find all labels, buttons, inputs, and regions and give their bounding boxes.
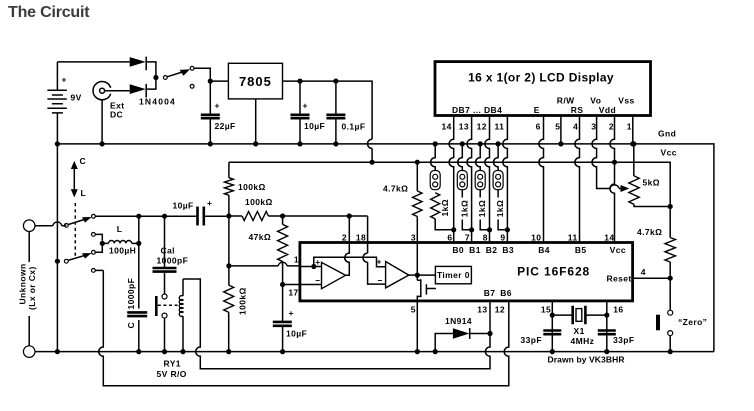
- svg-text:13: 13: [477, 305, 487, 315]
- capacitor C8 33pF right: [598, 331, 616, 335]
- svg-text:Gnd: Gnd: [658, 129, 676, 139]
- wire L/C branch vertical: [138, 216, 140, 351]
- svg-text:1N914: 1N914: [445, 316, 472, 326]
- wire LCD pin3 Vo to pot wiper: [592, 116, 626, 189]
- battery return vertical: [56, 144, 58, 352]
- node: +5 feed joins Vcc rail: [370, 160, 375, 165]
- wire PIC pin16 down: [606, 301, 608, 352]
- svg-text:100kΩ: 100kΩ: [238, 287, 248, 315]
- svg-text:5: 5: [555, 122, 560, 132]
- node: C2 bottom: [297, 141, 302, 146]
- node: C1 on gnd rail: [208, 141, 213, 146]
- hop: terminal wire over battery return: [53, 222, 62, 226]
- node: ExtDC on gnd rail: [100, 141, 105, 146]
- potentiometer VR1 5k: [629, 176, 639, 204]
- node: R9 on Vcc rail: [415, 160, 420, 165]
- capacitor C6 10uF coupling: [196, 207, 229, 226]
- node: C3 top: [333, 79, 338, 84]
- svg-text:1N4004: 1N4004: [139, 97, 176, 107]
- node: C8 on gnd rail: [604, 349, 609, 354]
- resistor RA 1k (zigzag): [431, 193, 440, 219]
- capacitor C9 10uF to gnd: [273, 285, 292, 352]
- wire SW1b upper throw to L junction: [95, 246, 102, 252]
- capacitor C7 33pF left: [543, 331, 561, 335]
- node: Vdd on Vcc rail: [612, 160, 617, 165]
- svg-text:2: 2: [342, 232, 347, 242]
- svg-text:11: 11: [495, 122, 505, 132]
- svg-text:+: +: [62, 75, 67, 85]
- node: C9 on bottom rail: [280, 349, 285, 354]
- wire LCD pin6 E to PIC pin10: [539, 116, 544, 243]
- node: R6 on bottom rail: [226, 349, 231, 354]
- svg-text:5V R/O: 5V R/O: [157, 369, 187, 379]
- node: R1 top junction: [226, 213, 231, 218]
- svg-text:10µF: 10µF: [286, 328, 307, 338]
- svg-text:22µF: 22µF: [215, 121, 236, 131]
- svg-text:RS: RS: [571, 105, 584, 115]
- reset wire from PIC pin4: [633, 277, 671, 279]
- capacitor C2 10uF: [291, 81, 310, 144]
- jumper JB: [457, 171, 467, 190]
- svg-text:12: 12: [495, 305, 505, 315]
- resistor R1 100k vertical: [224, 162, 233, 216]
- svg-text:L: L: [81, 188, 87, 198]
- terminal bottom (unknown): [23, 346, 35, 358]
- node: Vss on gnd rail: [630, 141, 635, 146]
- svg-text:11: 11: [568, 232, 578, 242]
- svg-text:Vcc: Vcc: [661, 148, 677, 158]
- svg-text:B5: B5: [575, 245, 587, 255]
- regulator U2 7805 box: [228, 63, 282, 99]
- Vcc rail: [229, 162, 670, 206]
- node: pin15 crystal junction: [550, 313, 555, 318]
- svg-text:7805: 7805: [239, 74, 272, 89]
- svg-text:4.7kΩ: 4.7kΩ: [637, 227, 662, 237]
- jumper JC: [475, 171, 485, 190]
- wire pin17 line: [283, 284, 300, 286]
- 7805 ground pin wire: [255, 99, 257, 144]
- wire LCD pin5 R/W to gnd: [560, 116, 562, 144]
- node: stub B on gnd rail: [460, 141, 465, 146]
- jumper column B stub from gnd: [458, 144, 463, 171]
- svg-text:33pF: 33pF: [521, 335, 542, 345]
- svg-text:B6: B6: [500, 288, 512, 298]
- node: inductor left junction: [100, 241, 105, 246]
- capacitor C5 Cal 1000pF: [153, 268, 177, 272]
- page title: [8, 4, 89, 22]
- wire osc line from SW1a throw: [95, 215, 196, 217]
- resistor RB 1k (text body): [461, 190, 463, 198]
- diode D2 1N4004 (bottom): [130, 78, 156, 98]
- svg-text:1000pF: 1000pF: [157, 255, 189, 265]
- resistor RD 1k (text body): [497, 190, 499, 198]
- relay contact RY1a: [156, 294, 178, 318]
- node: pin17 junction: [280, 282, 285, 287]
- wire terminal top to switch 1 common: [29, 226, 64, 346]
- resistor R6 100k lower: [224, 266, 234, 352]
- svg-text:17: 17: [288, 288, 298, 298]
- relay coil RY1: [179, 279, 183, 352]
- node: battery return at switch 2: [55, 259, 60, 264]
- resistor R2 100k horizontal: [229, 212, 283, 221]
- node: pot top on gnd rail: [631, 141, 636, 146]
- svg-text:1kΩ: 1kΩ: [477, 200, 487, 217]
- svg-text:Vdd: Vdd: [599, 105, 616, 115]
- node: inductor right junction: [136, 241, 141, 246]
- switch SW1a (C/L select upper): [64, 214, 95, 236]
- wire RD to data line: [498, 220, 507, 230]
- wire PIC pin13 B7 to relay coil: [183, 279, 490, 369]
- pot bottom wire to Vcc branch: [634, 204, 670, 206]
- node: C3 bottom: [333, 141, 338, 146]
- crystal X1: [552, 306, 607, 325]
- svg-text:B2: B2: [486, 245, 498, 255]
- jumper column D stub from gnd: [494, 144, 499, 171]
- svg-text:6: 6: [447, 232, 452, 242]
- svg-text:+: +: [303, 101, 308, 111]
- svg-text:4.7kΩ: 4.7kΩ: [383, 184, 408, 194]
- hop: pin1 wire over R3: [278, 262, 287, 266]
- +5V rail from 7805: [283, 81, 373, 162]
- LCD module box: [435, 62, 651, 116]
- wire pin1 into + input: [300, 266, 322, 268]
- node: 7805 gnd on rail: [253, 141, 258, 146]
- svg-text:Cal: Cal: [161, 245, 175, 255]
- svg-text:Reset: Reset: [607, 273, 632, 283]
- svg-text:1kΩ: 1kΩ: [495, 200, 505, 217]
- node: R2/R3 junction: [280, 213, 285, 218]
- svg-text:L: L: [117, 224, 123, 234]
- resistor R3 47k: [278, 216, 288, 285]
- node: pin16 crystal junction: [604, 313, 609, 318]
- svg-text:16 x 1(or 2) LCD Display: 16 x 1(or 2) LCD Display: [468, 71, 614, 85]
- svg-text:DB7 ... DB4: DB7 ... DB4: [452, 105, 502, 115]
- wire LCD pin13 to PIC pin7: [467, 116, 472, 243]
- node: stub A on gnd rail: [433, 141, 438, 146]
- Ext DC jack J1: [93, 82, 130, 144]
- node: + input junction: [311, 264, 316, 269]
- svg-text:9V: 9V: [71, 93, 82, 103]
- svg-text:2: 2: [609, 122, 614, 132]
- svg-text:Drawn by VK3BHR: Drawn by VK3BHR: [548, 355, 625, 365]
- gnd top rail: [57, 144, 714, 352]
- node: reset junction: [668, 276, 673, 281]
- wire SW1a common to terminal: [64, 224, 66, 226]
- svg-text:47kΩ: 47kΩ: [249, 232, 272, 242]
- node: D3 anode on gnd rail: [433, 349, 438, 354]
- svg-text:5kΩ: 5kΩ: [643, 178, 660, 188]
- node: battery return on bottom rail: [55, 349, 60, 354]
- gnd bottom rail: [35, 351, 714, 353]
- svg-text:“Zero”: “Zero”: [678, 317, 707, 327]
- svg-text:3: 3: [591, 122, 596, 132]
- svg-text:0.1µF: 0.1µF: [342, 122, 366, 132]
- svg-text:+: +: [207, 198, 212, 208]
- hop: Vo wiper wire over Vdd line: [610, 185, 619, 189]
- wire RA to data line: [435, 219, 454, 230]
- svg-text:15: 15: [541, 305, 551, 315]
- svg-text:B4: B4: [538, 245, 550, 255]
- transistor Q1 mosfet: [417, 279, 436, 301]
- svg-text:3: 3: [411, 232, 416, 242]
- switch SW1b (C/L select lower): [64, 250, 95, 272]
- wire RC to data line: [480, 220, 489, 230]
- svg-text:Vcc: Vcc: [610, 245, 626, 255]
- diode D1 1N4004 (top): [130, 57, 156, 78]
- wire SW1a lower throw to L junction: [95, 234, 102, 240]
- node: C7 on gnd rail: [550, 349, 555, 354]
- svg-text:4: 4: [573, 122, 578, 132]
- C/L selector arrow: [71, 161, 78, 198]
- capacitor C3 0.1uF: [326, 81, 345, 144]
- diode D3 1N914: [435, 328, 490, 352]
- wire LCD pin11 to PIC pin9: [503, 116, 508, 243]
- node: R6 top junction: [226, 263, 231, 268]
- hop: pin18 wire over + line: [363, 253, 368, 262]
- Timer 0 box: [435, 266, 471, 283]
- wire RB to data line: [462, 220, 471, 230]
- svg-text:+: +: [215, 101, 220, 111]
- wire LCD pin1 Vss to gnd: [632, 116, 634, 144]
- op-amp U1a triangle: [322, 262, 346, 288]
- battery BT1 9V: [47, 90, 66, 144]
- node: relay contact on rail: [162, 349, 167, 354]
- svg-text:1kΩ: 1kΩ: [459, 200, 469, 217]
- svg-text:B0: B0: [452, 245, 464, 255]
- pot wiper arrowhead: [621, 185, 630, 192]
- node: RD joins DB4 line: [505, 227, 510, 232]
- svg-text:Vo: Vo: [590, 95, 601, 105]
- svg-text:9: 9: [500, 232, 505, 242]
- wire pin1 line with hop over R3: [229, 265, 300, 267]
- wire Zero button to gnd rail: [669, 336, 671, 352]
- node: C2 top: [297, 79, 302, 84]
- wire PIC pin15 down: [551, 301, 553, 352]
- svg-text:X1: X1: [574, 326, 585, 336]
- resistor R9 4.7k pull-up: [413, 162, 422, 242]
- svg-text:13: 13: [459, 122, 469, 132]
- svg-text:6: 6: [536, 122, 541, 132]
- svg-text:33pF: 33pF: [613, 335, 634, 345]
- wire PIC pin5 to gnd: [416, 301, 418, 352]
- wire U1b output to pin3 line: [409, 243, 418, 281]
- wire reset to Zero button: [669, 278, 671, 310]
- svg-text:Timer 0: Timer 0: [437, 270, 470, 280]
- node: stub C on gnd rail: [478, 141, 483, 146]
- svg-text:14: 14: [442, 122, 452, 132]
- switch SW power: [163, 66, 210, 88]
- svg-text:1kΩ: 1kΩ: [440, 199, 450, 216]
- jumper column A stub from gnd: [431, 144, 436, 171]
- push button SW Zero: [656, 310, 673, 335]
- svg-text:1: 1: [294, 255, 299, 265]
- jumper column C stub from gnd: [476, 144, 481, 171]
- wire pin17 into - input: [300, 284, 322, 286]
- svg-text:100µH: 100µH: [109, 246, 136, 256]
- svg-text:10µF: 10µF: [304, 121, 325, 131]
- svg-text:100kΩ: 100kΩ: [238, 182, 266, 192]
- svg-text:5: 5: [411, 305, 416, 315]
- wire LCD pin2 Vdd to Vcc rail and PIC pin14: [610, 116, 615, 243]
- node: battery on gnd rail: [55, 141, 60, 146]
- svg-text:RY1: RY1: [164, 359, 181, 369]
- terminal top (unknown): [23, 220, 35, 232]
- node: diode junction: [153, 75, 158, 80]
- svg-text:DC: DC: [110, 110, 123, 120]
- wire LCD pin14 data DB7 to PIC pin6: [449, 116, 454, 243]
- wire PIC pin12 B6 to switch: [99, 270, 509, 385]
- wire LCD pin4 RS to PIC pin11: [575, 116, 580, 243]
- node: R/W on gnd rail: [558, 141, 563, 146]
- svg-text:10: 10: [531, 232, 541, 242]
- node: U1b output junction: [415, 273, 420, 278]
- svg-text:7: 7: [465, 232, 470, 242]
- svg-text:+: +: [289, 308, 294, 318]
- node: relay coil on rail: [180, 349, 185, 354]
- svg-text:100kΩ: 100kΩ: [245, 197, 273, 207]
- svg-text:B3: B3: [502, 245, 514, 255]
- capacitor C4 1000pF: [127, 312, 147, 316]
- svg-text:B7: B7: [484, 288, 496, 298]
- node: RB joins DB6 line: [469, 227, 474, 232]
- svg-text:E: E: [534, 105, 540, 115]
- node: 7805 input junction: [208, 79, 213, 84]
- svg-text:B1: B1: [469, 245, 481, 255]
- wire 100k lower branch: [228, 216, 230, 266]
- svg-text:(Lx or Cx): (Lx or Cx): [27, 266, 37, 310]
- wire relay contact to gnd rail: [164, 318, 166, 352]
- wire U1b output to Timer0: [417, 274, 435, 276]
- node: RC joins DB5 line: [487, 227, 492, 232]
- inductor L1 100uH: [102, 240, 139, 243]
- wire battery top to diodes: [57, 62, 129, 90]
- capacitor C1 22uF: [201, 81, 220, 144]
- svg-text:14: 14: [604, 232, 614, 242]
- node: C4 on bottom rail: [136, 349, 141, 354]
- svg-text:10µF: 10µF: [173, 201, 194, 211]
- node: Zero on gnd rail: [668, 349, 673, 354]
- node: pin2 on feedback line: [347, 213, 352, 218]
- hop: +5 feed over gnd rail: [368, 139, 373, 148]
- svg-text:PIC 16F628: PIC 16F628: [517, 265, 590, 279]
- op-amp U1b triangle: [386, 262, 409, 288]
- wire U1a output to pin2: [345, 216, 350, 275]
- resistor R10 4.7k reset pull-up: [665, 207, 675, 279]
- svg-text:C: C: [80, 156, 87, 166]
- svg-text:Vss: Vss: [618, 95, 634, 105]
- node: osc line at Cal branch: [162, 214, 167, 219]
- jumper JA: [430, 171, 440, 190]
- node: osc line at L branch: [136, 214, 141, 219]
- wire to 7805 input: [210, 80, 228, 82]
- resistor RC 1k (text body): [479, 190, 481, 198]
- svg-text:R/W: R/W: [557, 95, 575, 105]
- svg-text:C: C: [126, 322, 136, 329]
- wire pin18 to U1b - input: [368, 216, 386, 284]
- wire Cal branch vertical: [164, 216, 166, 294]
- node: RA joins DB7 line: [451, 227, 456, 232]
- pot top wire from gnd rail: [633, 144, 635, 176]
- svg-text:1000pF: 1000pF: [126, 278, 136, 310]
- svg-text:12: 12: [477, 122, 487, 132]
- wire SW1b lower throw down: [95, 269, 103, 271]
- svg-text:+: +: [377, 257, 382, 267]
- wire LCD pin12 to PIC pin8: [485, 116, 490, 243]
- PIC 16F628 box: [300, 243, 633, 301]
- switch gang dashed link: [74, 203, 76, 258]
- svg-text:18: 18: [356, 232, 366, 242]
- svg-text:4: 4: [641, 267, 646, 277]
- node: pot bottom junction: [668, 204, 673, 209]
- feedback line to pin2/pin18: [283, 215, 368, 217]
- svg-text:4MHz: 4MHz: [571, 336, 595, 346]
- svg-text:16: 16: [613, 305, 623, 315]
- svg-text:−: −: [378, 275, 383, 285]
- svg-text:8: 8: [483, 232, 488, 242]
- node: D3 cathode on pin13 wire: [487, 331, 492, 336]
- jumper JD: [493, 171, 503, 190]
- node: pin5 on gnd rail: [415, 349, 420, 354]
- node: stub D on gnd rail: [496, 141, 501, 146]
- svg-text:1: 1: [627, 122, 632, 132]
- wire + input across to U1b + input: [314, 257, 386, 267]
